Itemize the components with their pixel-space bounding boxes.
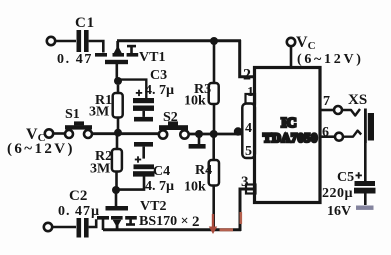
svg-text:VT2: VT2: [140, 199, 166, 214]
wire center line right: [189, 133, 242, 136]
capacitor C5: [354, 172, 376, 205]
svg-text:220µ: 220µ: [322, 186, 353, 201]
node R2/C4/VT2 gate: [112, 186, 120, 194]
svg-text:R4: R4: [195, 163, 212, 178]
svg-text:S2: S2: [163, 110, 178, 125]
svg-text:VT1: VT1: [139, 50, 165, 65]
wire VT1 gate lead: [116, 64, 119, 79]
wire pin3: [240, 189, 254, 231]
svg-text:4. 7µ: 4. 7µ: [145, 179, 174, 194]
ground: [198, 136, 201, 145]
capacitor C4: [133, 142, 155, 177]
wire R3 top lead: [213, 43, 216, 83]
svg-text:0. 47: 0. 47: [57, 52, 93, 67]
svg-text:3M: 3M: [90, 162, 110, 177]
svg-text:4: 4: [245, 121, 252, 136]
node rail-R3: [210, 37, 218, 45]
svg-text:S1: S1: [65, 107, 80, 122]
Vc top terminal: [287, 38, 295, 46]
svg-text:1: 1: [247, 85, 254, 100]
svg-text:5: 5: [245, 144, 252, 159]
wire center line: [92, 132, 159, 135]
svg-text:3: 3: [241, 174, 249, 190]
capacitor C3: [133, 90, 154, 122]
pin 3 stub box: [246, 185, 256, 194]
wire top rail: [117, 39, 241, 42]
wire R3 bottom lead: [213, 104, 216, 133]
node S2 output: [195, 130, 203, 138]
IC U1 TDA7050: [255, 68, 321, 203]
wire: [56, 40, 77, 43]
svg-text:16V: 16V: [327, 204, 351, 219]
resistor R2: [116, 136, 119, 149]
ground C5: [356, 206, 374, 210]
resistor R1: [117, 85, 120, 93]
node R1/R2: [114, 129, 122, 137]
node VT1 gate / R1 / C3: [114, 77, 122, 85]
capacitor C1: [77, 30, 89, 52]
wire to C3: [120, 80, 146, 98]
switch S2: [159, 130, 167, 138]
resistor R3: [209, 83, 219, 104]
svg-text:2: 2: [192, 214, 200, 230]
svg-text:2: 2: [243, 67, 251, 84]
wire: [89, 41, 104, 53]
svg-text:C5: C5: [337, 170, 354, 185]
input terminal bottom-left: [44, 223, 52, 231]
svg-text:3M: 3M: [89, 105, 109, 120]
wire rail to pin2: [240, 40, 254, 77]
node pin4: [234, 127, 242, 135]
svg-text:C2: C2: [69, 188, 87, 204]
resistor R4: [212, 136, 215, 160]
wire R4 bottom lead: [212, 186, 215, 231]
wire to C4: [118, 177, 144, 190]
svg-text:4. 7µ: 4. 7µ: [145, 83, 174, 98]
wire hook pin6: [343, 131, 361, 137]
svg-text:C1: C1: [75, 15, 95, 31]
wire bottom rail: [103, 228, 241, 231]
svg-text:10k: 10k: [184, 94, 206, 109]
input terminal top-left: [47, 37, 55, 45]
wire: [52, 226, 76, 229]
wire to C5: [364, 143, 367, 181]
transistor VT2: [97, 206, 137, 230]
wire hook pin7: [342, 109, 360, 116]
svg-text:BS170 ×: BS170 ×: [139, 214, 189, 229]
pin 1 stub: [246, 94, 256, 104]
switch S1: [65, 130, 73, 138]
pin 4/5 bracket: [242, 104, 255, 159]
svg-text:VC: VC: [296, 34, 316, 52]
capacitor C2: [77, 218, 89, 238]
node R3/R4: [210, 130, 218, 138]
svg-text:7: 7: [323, 94, 330, 109]
wire VT2 gate lead: [115, 193, 118, 206]
wire: [53, 132, 65, 135]
red modification arrow: [209, 214, 217, 234]
wire R1 bottom lead: [117, 118, 120, 133]
svg-text:(6~12V): (6~12V): [297, 52, 364, 67]
wire R2 bottom lead: [115, 172, 118, 188]
transistor VT1: [95, 41, 138, 64]
svg-text:0. 47µ: 0. 47µ: [58, 204, 100, 219]
svg-text:(6~12V): (6~12V): [7, 141, 75, 157]
svg-text:XS: XS: [348, 92, 367, 108]
svg-text:C3: C3: [150, 68, 167, 83]
svg-text:IC: IC: [281, 116, 297, 131]
svg-text:10k: 10k: [184, 180, 206, 195]
svg-text:C4: C4: [153, 164, 170, 179]
wire: [89, 219, 97, 227]
red dashed wire: [220, 212, 241, 230]
svg-text:TDA7050: TDA7050: [263, 131, 318, 145]
